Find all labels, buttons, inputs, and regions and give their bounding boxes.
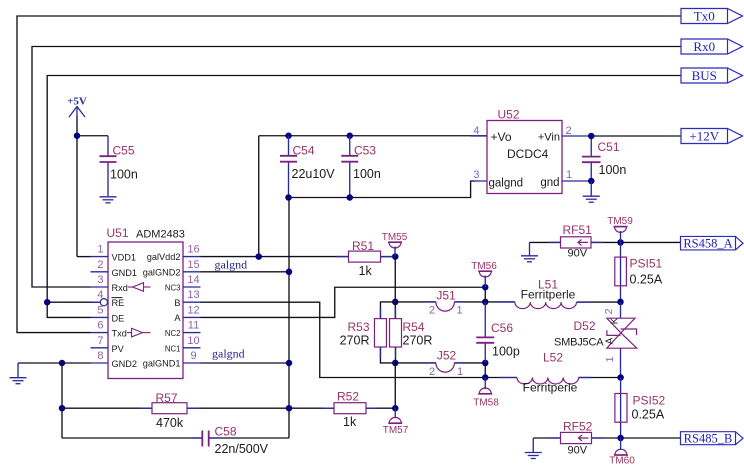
svg-text:L52: L52 — [543, 351, 563, 365]
svg-text:12: 12 — [187, 304, 199, 316]
svg-text:PSI51: PSI51 — [630, 257, 663, 271]
svg-text:11: 11 — [188, 320, 199, 332]
svg-text:1: 1 — [97, 244, 103, 256]
svg-text:K: K — [609, 317, 620, 324]
svg-text:2: 2 — [603, 308, 615, 314]
svg-text:270R: 270R — [403, 334, 433, 348]
svg-text:100n: 100n — [599, 163, 627, 177]
svg-text:TM58: TM58 — [473, 398, 499, 409]
svg-text:NC3: NC3 — [165, 284, 181, 293]
svg-text:PSI52: PSI52 — [633, 394, 666, 408]
svg-text:A: A — [605, 337, 616, 344]
svg-text:J51: J51 — [436, 288, 456, 302]
svg-text:0.25A: 0.25A — [630, 273, 663, 287]
svg-text:+12V: +12V — [689, 128, 719, 143]
svg-text:C56: C56 — [491, 321, 513, 335]
svg-text:D52: D52 — [574, 319, 596, 333]
svg-text:1: 1 — [457, 366, 463, 378]
svg-text:1: 1 — [604, 356, 616, 362]
svg-text:U51: U51 — [107, 226, 129, 240]
svg-text:galgnd: galgnd — [212, 347, 245, 361]
svg-text:3: 3 — [97, 274, 103, 286]
svg-text:GND1: GND1 — [112, 268, 138, 278]
svg-text:Txd: Txd — [112, 329, 127, 339]
svg-text:100n: 100n — [353, 167, 381, 181]
svg-text:C55: C55 — [113, 144, 135, 158]
svg-text:C58: C58 — [215, 425, 237, 439]
svg-text:C51: C51 — [598, 140, 620, 154]
svg-text:Ferritperle: Ferritperle — [523, 381, 578, 395]
svg-text:RS485_B: RS485_B — [684, 432, 733, 446]
svg-text:J52: J52 — [437, 349, 457, 363]
svg-text:NC2: NC2 — [165, 329, 181, 338]
svg-text:C53: C53 — [354, 144, 376, 158]
svg-text:3: 3 — [473, 169, 479, 181]
svg-text:galVdd2: galVdd2 — [147, 252, 181, 262]
svg-text:22n/500V: 22n/500V — [215, 442, 269, 456]
svg-text:14: 14 — [187, 274, 199, 286]
svg-text:7: 7 — [97, 335, 103, 347]
svg-text:100n: 100n — [110, 168, 138, 182]
svg-text:PV: PV — [112, 344, 125, 354]
svg-text:100p: 100p — [492, 345, 520, 359]
svg-text:TM59: TM59 — [607, 216, 633, 227]
svg-text:U52: U52 — [498, 108, 520, 122]
svg-text:8: 8 — [97, 350, 103, 362]
svg-text:+5V: +5V — [67, 96, 87, 108]
svg-text:C54: C54 — [293, 144, 315, 158]
svg-text:R52: R52 — [337, 390, 359, 404]
svg-text:270R: 270R — [340, 334, 370, 348]
svg-text:BUS: BUS — [692, 68, 717, 83]
svg-text:16: 16 — [187, 244, 199, 256]
svg-text:RF52: RF52 — [563, 420, 593, 434]
svg-text:TM57: TM57 — [383, 425, 409, 436]
svg-text:+Vin: +Vin — [538, 132, 560, 144]
svg-text:9: 9 — [190, 350, 196, 362]
svg-text:R54: R54 — [403, 320, 425, 334]
svg-text:1: 1 — [456, 305, 462, 317]
svg-text:22u10V: 22u10V — [292, 167, 336, 181]
svg-text:Rxd: Rxd — [112, 283, 128, 293]
svg-text:90V: 90V — [568, 445, 588, 457]
svg-text:13: 13 — [187, 289, 199, 301]
svg-text:NC1: NC1 — [165, 344, 181, 353]
svg-text:10: 10 — [187, 335, 199, 347]
svg-text:R57: R57 — [156, 391, 178, 405]
svg-text:RE: RE — [112, 298, 125, 308]
svg-text:2: 2 — [97, 259, 103, 271]
svg-text:VDD1: VDD1 — [112, 253, 137, 263]
svg-text:R53: R53 — [347, 320, 369, 334]
svg-text:0.25A: 0.25A — [632, 408, 665, 422]
svg-text:1k: 1k — [359, 264, 373, 278]
svg-text:ADM2483: ADM2483 — [136, 229, 185, 241]
svg-text:galgnd: galgnd — [489, 178, 524, 190]
svg-text:90V: 90V — [568, 248, 588, 260]
svg-text:R51: R51 — [352, 239, 374, 253]
svg-text:TM55: TM55 — [382, 232, 408, 243]
svg-text:5: 5 — [97, 304, 103, 316]
svg-text:15: 15 — [187, 259, 199, 271]
svg-text:Rx0: Rx0 — [693, 39, 715, 54]
svg-text:galGND2: galGND2 — [143, 267, 181, 277]
svg-text:GND2: GND2 — [112, 359, 138, 369]
svg-text:DCDC4: DCDC4 — [507, 147, 549, 161]
svg-text:1k: 1k — [343, 415, 357, 429]
svg-text:A: A — [174, 313, 181, 323]
svg-text:galgnd: galgnd — [215, 258, 248, 272]
svg-text:SMBJ5CA: SMBJ5CA — [554, 337, 604, 349]
svg-text:TM56: TM56 — [471, 261, 497, 272]
svg-text:1: 1 — [566, 169, 572, 181]
svg-text:gnd: gnd — [540, 177, 559, 189]
svg-text:470k: 470k — [156, 416, 184, 430]
svg-text:Ferritperle: Ferritperle — [521, 288, 576, 302]
svg-text:6: 6 — [97, 320, 103, 332]
svg-text:+Vo: +Vo — [491, 130, 512, 144]
svg-text:TM60: TM60 — [609, 456, 635, 467]
svg-text:Tx0: Tx0 — [694, 8, 715, 23]
svg-text:DE: DE — [112, 313, 125, 323]
svg-text:RS458_A: RS458_A — [683, 237, 732, 251]
svg-text:B: B — [174, 298, 180, 308]
svg-text:2: 2 — [429, 366, 435, 378]
svg-text:2: 2 — [429, 305, 435, 317]
svg-text:RF51: RF51 — [563, 223, 593, 237]
svg-text:galGND1: galGND1 — [143, 359, 181, 369]
